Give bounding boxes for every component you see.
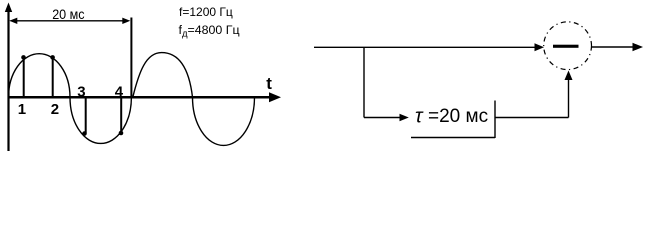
svg-text:2: 2 [51, 101, 59, 118]
svg-text:f=1200 Гц: f=1200 Гц [179, 5, 233, 19]
svg-text:20 мс: 20 мс [52, 6, 84, 22]
svg-text:=20 мс: =20 мс [428, 106, 488, 127]
svg-text:3: 3 [77, 83, 85, 100]
svg-text:1: 1 [18, 101, 26, 118]
svg-text:4: 4 [115, 83, 124, 100]
svg-text:t: t [266, 74, 272, 93]
